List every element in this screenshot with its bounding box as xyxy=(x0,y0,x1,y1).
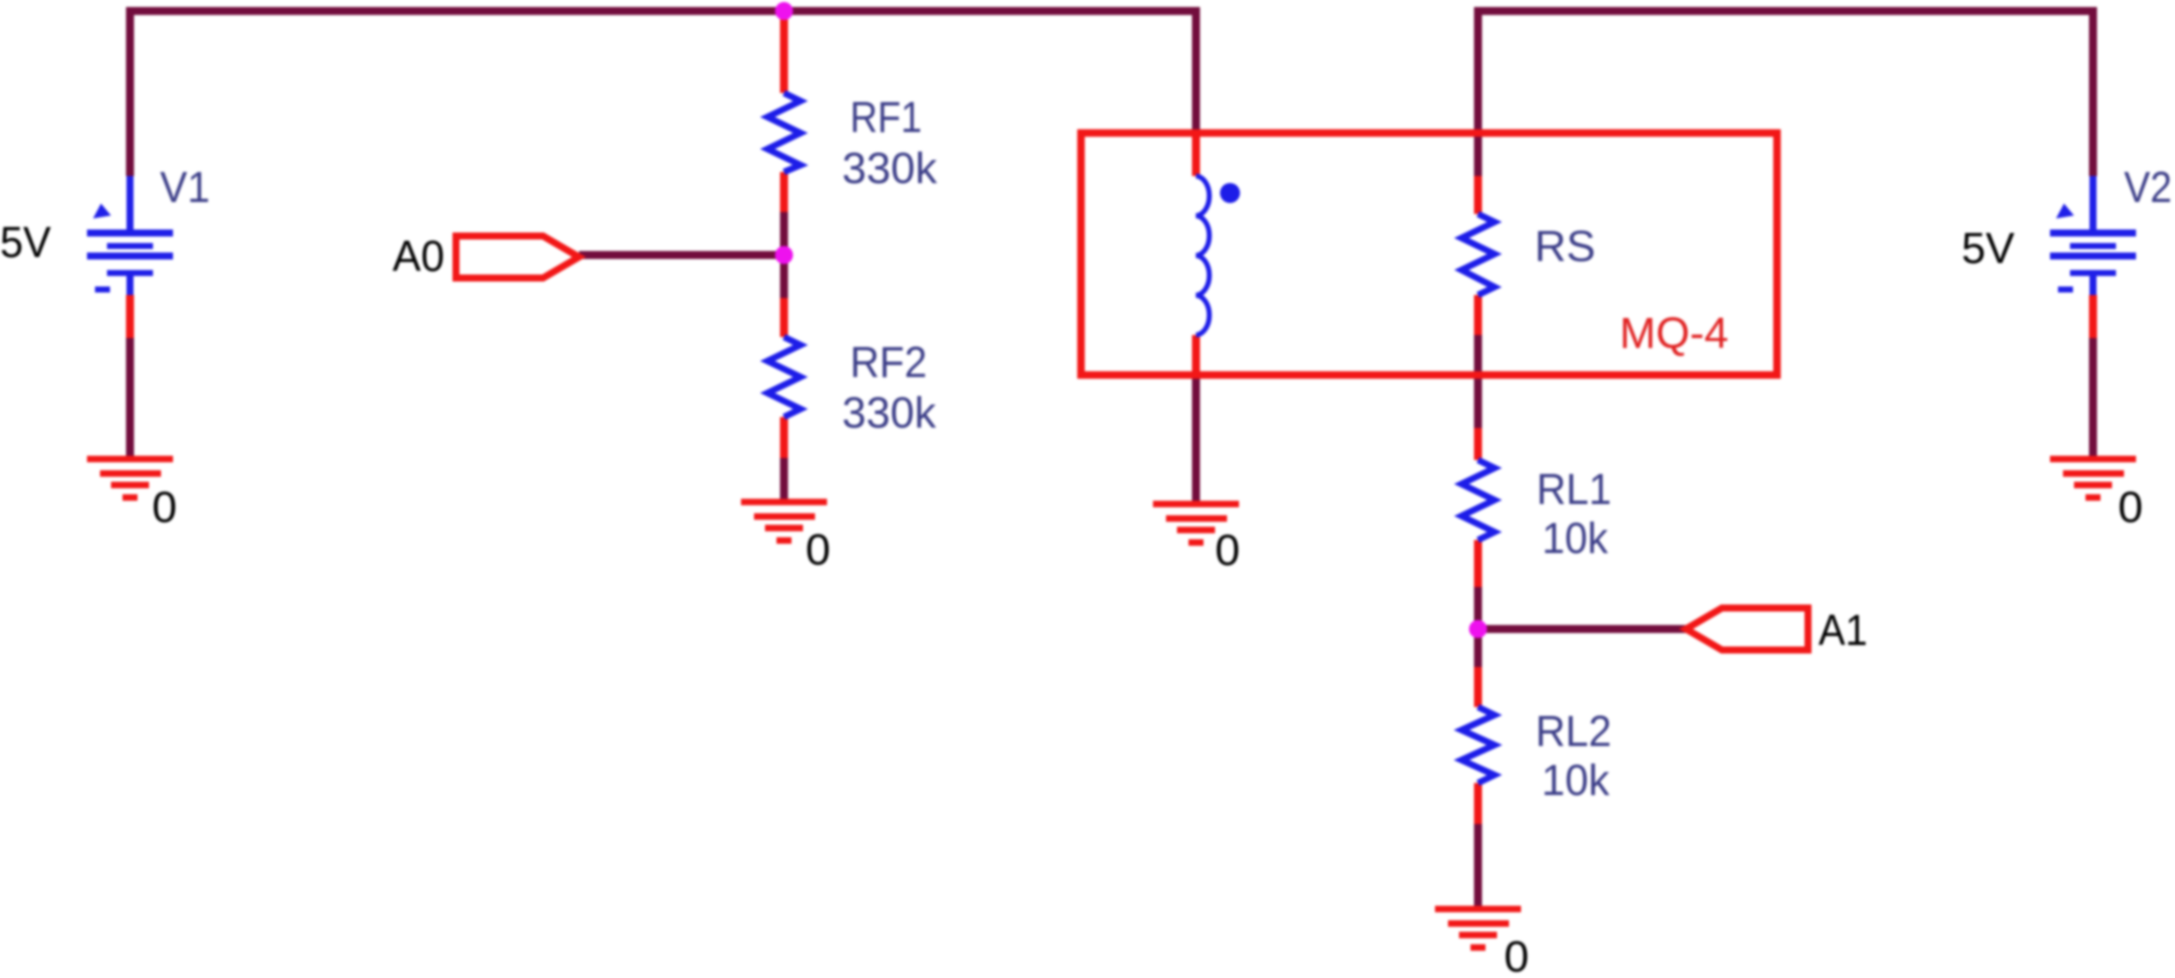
svg-text:0: 0 xyxy=(152,483,177,532)
svg-text:330k: 330k xyxy=(842,144,938,193)
svg-text:A1: A1 xyxy=(1819,606,1868,655)
svg-text:RF2: RF2 xyxy=(850,338,927,387)
svg-text:RF1: RF1 xyxy=(850,93,922,142)
svg-text:RL2: RL2 xyxy=(1536,707,1612,756)
svg-text:5V: 5V xyxy=(1962,224,2016,273)
svg-text:0: 0 xyxy=(806,526,831,575)
svg-text:10k: 10k xyxy=(1542,756,1611,805)
svg-text:MQ-4: MQ-4 xyxy=(1620,309,1729,358)
svg-text:A0: A0 xyxy=(393,232,445,281)
svg-text:330k: 330k xyxy=(842,389,937,438)
svg-text:5V: 5V xyxy=(0,218,52,267)
svg-text:RL1: RL1 xyxy=(1537,465,1612,514)
svg-text:10k: 10k xyxy=(1542,514,1609,563)
svg-text:0: 0 xyxy=(1215,526,1240,575)
svg-text:V1: V1 xyxy=(160,163,210,212)
svg-text:RS: RS xyxy=(1535,222,1596,271)
svg-text:0: 0 xyxy=(2118,483,2143,532)
svg-text:0: 0 xyxy=(1504,933,1529,978)
svg-text:V2: V2 xyxy=(2124,163,2172,212)
